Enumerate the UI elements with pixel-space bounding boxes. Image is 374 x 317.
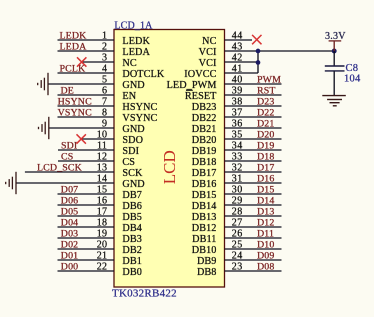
svg-text:35: 35 [232, 130, 243, 141]
pin 1 LEDK (left) [58, 31, 151, 48]
svg-text:30: 30 [232, 185, 243, 196]
pin 6 EN (left) [58, 86, 137, 103]
svg-text:DB12: DB12 [192, 223, 217, 234]
svg-text:2: 2 [102, 42, 107, 53]
svg-text:17: 17 [97, 207, 108, 218]
svg-text:23: 23 [232, 262, 243, 273]
pin 11 SDI (left) [58, 141, 140, 158]
svg-text:GND: GND [122, 80, 144, 91]
pin 22 DB0 (left) [58, 262, 142, 279]
pin 44 NC (right) [202, 31, 252, 48]
svg-text:VCI: VCI [199, 58, 217, 69]
svg-text:DB8: DB8 [197, 267, 217, 278]
svg-text:SCK: SCK [122, 168, 143, 179]
svg-text:40: 40 [232, 75, 243, 86]
svg-text:VSYNC: VSYNC [58, 108, 92, 119]
svg-text:D23: D23 [257, 97, 274, 108]
svg-text:1: 1 [102, 31, 107, 42]
wire capacitor to ground [333, 71, 335, 96]
svg-text:D13: D13 [257, 207, 274, 218]
svg-text:D15: D15 [257, 185, 274, 196]
svg-text:16: 16 [97, 196, 108, 207]
svg-text:20: 20 [97, 240, 108, 251]
svg-text:14: 14 [97, 174, 108, 185]
pin 36 DB21 (right) [192, 119, 282, 136]
wire 3.3V node to capacitor [333, 51, 335, 66]
ground symbol at pin 14 [6, 172, 16, 194]
svg-text:34: 34 [232, 141, 243, 152]
svg-text:DB4: DB4 [122, 223, 142, 234]
pin 7 HSYNC (left) [58, 97, 158, 114]
svg-text:DB10: DB10 [192, 245, 217, 256]
svg-text:3.3V: 3.3V [325, 31, 346, 42]
svg-text:D19: D19 [257, 141, 274, 152]
svg-text:5: 5 [102, 75, 107, 86]
pin 28 DB13 (right) [192, 207, 282, 224]
svg-text:D22: D22 [257, 108, 274, 119]
svg-text:13: 13 [97, 163, 108, 174]
svg-text:DB18: DB18 [192, 157, 217, 168]
pin 13 SCK (left) [25, 163, 143, 180]
svg-text:DB6: DB6 [122, 201, 142, 212]
svg-text:IOVCC: IOVCC [184, 69, 216, 80]
ground symbol at pin 5 [38, 73, 48, 95]
svg-text:D20: D20 [257, 130, 274, 141]
svg-text:TK032RB422: TK032RB422 [112, 288, 177, 300]
svg-text:D18: D18 [257, 152, 274, 163]
svg-text:LED_PWM: LED_PWM [167, 80, 217, 91]
svg-text:DB11: DB11 [192, 234, 216, 245]
svg-text:44: 44 [232, 31, 243, 42]
svg-text:GND: GND [122, 124, 144, 135]
svg-text:32: 32 [232, 163, 243, 174]
pin 18 DB4 (left) [58, 218, 142, 235]
svg-text:D14: D14 [257, 196, 274, 207]
no-connect X on pin 44 [252, 35, 261, 44]
svg-text:36: 36 [232, 119, 243, 130]
svg-text:PWM: PWM [257, 75, 281, 86]
wire vertical tying pins 43/42/41 [257, 51, 259, 73]
svg-text:DB5: DB5 [122, 212, 142, 223]
ground symbol at pin 9 [39, 117, 49, 139]
pin 19 DB3 (left) [58, 229, 142, 246]
svg-text:DB1: DB1 [122, 256, 142, 267]
svg-text:CS: CS [61, 152, 73, 163]
svg-text:DOTCLK: DOTCLK [122, 69, 164, 80]
pin 40 LED_PWM (right) [167, 75, 282, 92]
pin 30 DB15 (right) [192, 185, 282, 202]
no-connect X on pin 10 [77, 134, 86, 143]
svg-text:DB7: DB7 [122, 190, 142, 201]
junction dot pin 43 [256, 49, 261, 54]
pin 20 DB2 (left) [58, 240, 142, 257]
svg-text:DB13: DB13 [192, 212, 217, 223]
pin 8 VSYNC (left) [58, 108, 158, 125]
svg-text:PCLK: PCLK [60, 64, 87, 75]
pin 10 SDO (left) [81, 130, 143, 147]
svg-text:C8: C8 [346, 63, 359, 74]
svg-text:DB15: DB15 [192, 190, 217, 201]
pin 34 DB19 (right) [192, 141, 282, 158]
svg-text:D05: D05 [61, 207, 78, 218]
pin 35 DB20 (right) [192, 130, 282, 147]
svg-text:11: 11 [97, 141, 107, 152]
pin 23 DB8 (right) [197, 262, 282, 279]
svg-text:D17: D17 [257, 163, 274, 174]
svg-text:LEDA: LEDA [60, 42, 88, 53]
pin 26 DB11 (right) [192, 229, 281, 246]
svg-text:39: 39 [232, 86, 243, 97]
svg-text:D08: D08 [257, 262, 274, 273]
pin 15 DB7 (left) [58, 185, 142, 202]
pin 29 DB14 (right) [192, 196, 282, 213]
junction dot at 3.3V node [332, 49, 337, 54]
svg-text:D01: D01 [61, 251, 78, 262]
svg-text:3: 3 [102, 53, 107, 64]
svg-text:HSYNC: HSYNC [58, 97, 92, 108]
pin 9 GND (left) [49, 119, 145, 136]
svg-text:LEDA: LEDA [122, 47, 150, 58]
svg-text:29: 29 [232, 196, 243, 207]
capacitor C8 104 [325, 63, 361, 85]
svg-text:DB22: DB22 [192, 113, 217, 124]
svg-text:DB17: DB17 [192, 168, 217, 179]
svg-text:HSYNC: HSYNC [122, 102, 157, 113]
svg-text:104: 104 [344, 73, 361, 84]
svg-text:D04: D04 [61, 218, 78, 229]
svg-text:D06: D06 [61, 196, 78, 207]
pin 41 IOVCC (right) [184, 64, 258, 81]
pin 14 GND (left) [16, 174, 145, 191]
svg-text:D21: D21 [257, 119, 274, 130]
svg-text:33: 33 [232, 152, 243, 163]
svg-text:LEDK: LEDK [122, 36, 150, 47]
svg-text:6: 6 [102, 86, 107, 97]
svg-text:4: 4 [102, 64, 107, 75]
svg-text:D00: D00 [61, 262, 78, 273]
earth ground below C8 [322, 96, 346, 106]
pin 4 DOTCLK (left) [58, 64, 165, 81]
svg-text:21: 21 [97, 251, 108, 262]
svg-text:CS: CS [122, 157, 135, 168]
svg-text:12: 12 [97, 152, 108, 163]
svg-text:38: 38 [232, 97, 243, 108]
svg-text:D07: D07 [61, 185, 78, 196]
svg-text:19: 19 [97, 229, 108, 240]
svg-text:NC: NC [202, 36, 216, 47]
pin 33 DB18 (right) [192, 152, 282, 169]
svg-text:NC: NC [122, 58, 136, 69]
pin 31 DB16 (right) [192, 174, 282, 191]
svg-text:SDO: SDO [122, 135, 143, 146]
svg-text:41: 41 [232, 64, 243, 75]
svg-text:LCD_SCK: LCD_SCK [37, 163, 83, 174]
svg-text:7: 7 [102, 97, 107, 108]
svg-text:9: 9 [102, 119, 107, 130]
svg-text:27: 27 [232, 218, 243, 229]
no-connect X on pin 3 [77, 57, 86, 66]
svg-text:DB19: DB19 [192, 146, 217, 157]
svg-text:DB2: DB2 [122, 245, 142, 256]
svg-text:22: 22 [97, 262, 108, 273]
svg-text:DB16: DB16 [192, 179, 217, 190]
svg-text:EN: EN [122, 91, 136, 102]
svg-text:DB0: DB0 [122, 267, 142, 278]
pin 37 DB22 (right) [192, 108, 282, 125]
svg-text:LCD_1A: LCD_1A [114, 20, 153, 31]
svg-text:DB14: DB14 [192, 201, 217, 212]
pin 5 GND (left) [48, 75, 145, 92]
svg-text:DE: DE [61, 86, 74, 97]
pin 2 LEDA (left) [58, 42, 151, 59]
svg-text:DB3: DB3 [122, 234, 142, 245]
svg-text:42: 42 [232, 53, 243, 64]
svg-text:RST: RST [257, 86, 276, 97]
svg-text:D12: D12 [257, 218, 274, 229]
svg-text:43: 43 [232, 42, 243, 53]
pin 27 DB12 (right) [192, 218, 282, 235]
pin 17 DB5 (left) [58, 207, 142, 224]
svg-text:VCI: VCI [199, 47, 217, 58]
svg-text:24: 24 [232, 251, 243, 262]
svg-text:D10: D10 [257, 240, 274, 251]
svg-text:DB23: DB23 [192, 102, 217, 113]
svg-text:D11: D11 [257, 229, 274, 240]
power port 3.3V [325, 31, 346, 51]
svg-text:DB20: DB20 [192, 135, 217, 146]
svg-text:DB9: DB9 [197, 256, 217, 267]
pin 25 DB10 (right) [192, 240, 282, 257]
LCD connector U1 body (TK032RB422) [114, 30, 225, 288]
svg-text:8: 8 [102, 108, 107, 119]
svg-text:D03: D03 [61, 229, 78, 240]
svg-text:15: 15 [97, 185, 108, 196]
pin 21 DB1 (left) [58, 251, 142, 268]
pin 42 VCI (right) [199, 53, 258, 70]
svg-text:25: 25 [232, 240, 243, 251]
pin 3 NC (left) [82, 53, 137, 70]
svg-text:LEDK: LEDK [60, 31, 88, 42]
pin 39 RESET (right) [185, 86, 282, 103]
svg-text:SDI: SDI [122, 146, 139, 157]
svg-text:LCD: LCD [160, 150, 179, 184]
svg-text:VSYNC: VSYNC [122, 113, 157, 124]
pin 12 CS (left) [58, 152, 135, 169]
pin 32 DB17 (right) [192, 163, 282, 180]
svg-text:31: 31 [232, 174, 243, 185]
svg-text:D09: D09 [257, 251, 274, 262]
svg-text:28: 28 [232, 207, 243, 218]
pin 24 DB9 (right) [197, 251, 282, 268]
svg-text:DB21: DB21 [192, 124, 217, 135]
svg-text:SDI: SDI [61, 141, 77, 152]
svg-text:26: 26 [232, 229, 243, 240]
pin 43 VCI (right) [199, 42, 335, 59]
junction dot pin 42 [256, 60, 261, 65]
pin 38 DB23 (right) [192, 97, 282, 114]
svg-text:D16: D16 [257, 174, 274, 185]
svg-text:GND: GND [122, 179, 144, 190]
svg-text:D02: D02 [61, 240, 78, 251]
pin 16 DB6 (left) [58, 196, 142, 213]
svg-text:RESET: RESET [185, 91, 217, 102]
svg-text:37: 37 [232, 108, 243, 119]
svg-text:18: 18 [97, 218, 108, 229]
svg-text:10: 10 [97, 130, 108, 141]
